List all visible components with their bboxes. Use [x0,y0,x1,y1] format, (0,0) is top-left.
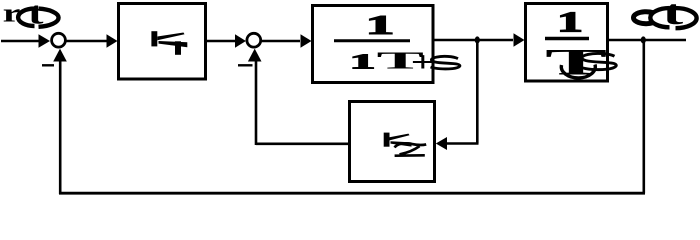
wire left into K2 [446,142,479,145]
arrowhead into S1 [39,34,51,48]
arrowhead into S2 [235,34,246,48]
svg-text:1: 1 [557,7,583,38]
block G2 = 1/(T2s) [526,4,608,82]
junction node B dot [641,36,646,43]
G1 denominator 1+T1s [349,47,460,78]
outer feedback wire up into S1 [59,60,62,194]
label K2 [384,133,427,156]
outer feedback bottom wire [59,192,645,195]
block K2 [350,102,435,182]
arrowhead up into S1 bottom [53,49,67,62]
outer feedback wire down from node B [642,40,645,193]
summing junction S2 [247,33,261,47]
wire G1 to G2 [434,39,513,41]
block K1 [119,4,206,80]
svg-text:1: 1 [365,10,394,40]
wire node A down to K2 level [476,40,479,144]
svg-text:+: + [411,47,435,78]
G2 fraction bar [545,37,589,41]
svg-text:1: 1 [349,49,375,73]
arrowhead into K2 right side [436,137,447,150]
output wire from G2 [609,39,686,41]
junction node A dot [475,36,480,43]
node r(t) input label [3,0,59,31]
arrowhead into G1 [301,34,312,48]
block G1 = 1/(1+T1s) [313,6,434,83]
wire S2 to block G1 [261,40,300,42]
minus sign at S1 [42,64,54,66]
node c(t) output label [633,0,696,32]
arrowhead into K1 [107,34,118,48]
G2 denominator T2s [545,42,616,83]
wire input to summing junction S1 [1,40,39,42]
G1 fraction bar [334,39,410,42]
wire S1 to K1 [66,40,107,42]
label K1 [151,31,187,55]
wire K2 output going left [256,143,348,146]
wire up into S2 [255,60,258,145]
summing junction S1 [52,33,66,47]
arrowhead into G2 [514,33,525,47]
minus sign at S2 [238,64,253,66]
wire K1 to summing junction S2 [207,40,236,42]
arrowhead up into S2 bottom [248,49,262,62]
